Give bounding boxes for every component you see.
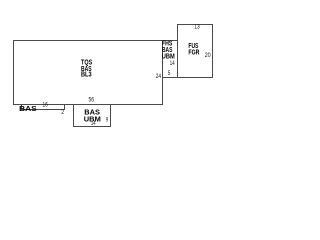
- BAS/UBM box left edge: [73, 104, 75, 127]
- svg-text:2: 2: [61, 109, 64, 116]
- svg-text:56: 56: [89, 97, 95, 104]
- FUS box left edge: [177, 24, 179, 78]
- BAS strip right edge: [64, 104, 66, 110]
- main section right edge: [162, 40, 164, 105]
- svg-text:24: 24: [156, 73, 162, 80]
- BAS/UBM box bottom edge: [73, 126, 111, 128]
- main section top edge (incl. extension to FUS box): [13, 40, 178, 42]
- svg-text:FGR: FGR: [188, 49, 199, 56]
- FUS box bottom edge + connector to main section: [162, 77, 213, 79]
- svg-text:9: 9: [106, 117, 109, 124]
- svg-text:BL3: BL3: [81, 72, 92, 79]
- main section bottom edge: [13, 104, 163, 106]
- BAS/UBM box right edge: [110, 104, 112, 127]
- svg-text:20: 20: [205, 52, 211, 59]
- BAS strip bottom edge: [21, 109, 65, 111]
- svg-text:14: 14: [91, 120, 96, 127]
- FUS box top edge: [177, 24, 213, 26]
- svg-text:14: 14: [170, 60, 175, 67]
- svg-text:16: 16: [43, 102, 49, 109]
- svg-text:5: 5: [168, 70, 171, 77]
- main section left edge: [13, 40, 15, 105]
- FUS box right edge: [212, 24, 214, 78]
- svg-text:13: 13: [194, 24, 200, 31]
- BAS strip left edge: [21, 104, 23, 110]
- svg-text:BAS: BAS: [19, 106, 37, 113]
